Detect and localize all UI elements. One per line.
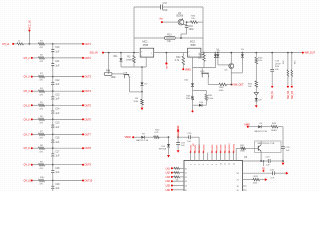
- svg-text:ROW8: ROW8: [221, 144, 223, 151]
- svg-text:1uF: 1uF: [55, 188, 60, 190]
- IC U6 top pin 9: [224, 153, 226, 161]
- svg-text:CH_10: CH_10: [24, 180, 32, 183]
- op-amp MC2 4558: [188, 48, 201, 57]
- IC U6 right pin row3 resistor R39: [243, 179, 254, 181]
- node row 8 cap junction: [52, 147, 54, 149]
- wire row 6 resistor to junction: [45, 118, 53, 120]
- svg-text:BA157L/T1B: BA157L/T1B: [255, 130, 268, 133]
- svg-text:C10: C10: [55, 47, 60, 49]
- svg-text:ROW3: ROW3: [199, 144, 201, 151]
- svg-text:ROW11: ROW11: [234, 143, 236, 151]
- svg-text:ROW1: ROW1: [191, 144, 193, 151]
- node D11 junction: [120, 52, 122, 54]
- svg-text:VREF: VREF: [178, 124, 180, 131]
- wire row1 inductor to junction: [24, 43, 39, 45]
- svg-text:INP10A: INP10A: [159, 148, 167, 151]
- wire D2 to R8: [141, 85, 143, 99]
- node row 10 cap junction: [52, 180, 54, 182]
- node signal drop junction: [108, 52, 110, 54]
- transistor box U9 MMBT5551L/T1B: [255, 141, 282, 152]
- capacitor C17 1uF: [52, 148, 54, 154]
- svg-text:1uF: 1uF: [55, 113, 60, 115]
- wire to R3 junction: [121, 52, 139, 54]
- diode D2: [141, 82, 144, 85]
- diode D6 BA157L: [258, 125, 261, 128]
- svg-text:1uF: 1uF: [270, 177, 274, 179]
- svg-text:OUT2: OUT2: [85, 57, 92, 60]
- wire Q5 collector to bus: [230, 53, 232, 64]
- svg-text:35: 35: [237, 190, 239, 191]
- wire row 5 port to resistor: [33, 104, 39, 106]
- svg-text:1uF: 1uF: [55, 51, 60, 53]
- svg-text:36: 36: [237, 186, 239, 188]
- wire row 3 port to resistor: [33, 76, 39, 78]
- IC U6 top pin 3: [198, 153, 200, 161]
- wire feedback right vertical: [202, 7, 204, 53]
- node supply junction VA: [177, 136, 179, 138]
- wire C16 down to R13 node: [186, 28, 188, 34]
- wire R13 row: [134, 37, 165, 39]
- wire MC1 bottom pin: [145, 57, 147, 67]
- wire branch right: [193, 89, 207, 91]
- wire U1B leg down: [129, 78, 131, 92]
- node R3 feedback junction: [133, 52, 135, 54]
- transistor U1D: [201, 72, 209, 74]
- capacitor C11 1uF: [52, 58, 54, 64]
- node row 5 right net: [82, 104, 84, 106]
- svg-text:1uF: 1uF: [55, 127, 60, 129]
- wire Q6 collector up: [260, 141, 262, 145]
- wire row 8 resistor to junction: [45, 147, 53, 149]
- node row 6 cap junction: [52, 119, 54, 121]
- svg-text:CH_5: CH_5: [24, 104, 31, 107]
- IC U6 top pin 11: [233, 153, 235, 161]
- transistor Q6 symbol: [257, 146, 259, 151]
- svg-text:OUT9: OUT9: [85, 164, 92, 167]
- net red arrow down R8: [141, 108, 144, 111]
- capacitor C10 1uF: [52, 44, 54, 50]
- node row 2 cap junction: [52, 57, 54, 59]
- svg-text:100k: 100k: [111, 77, 117, 79]
- wire row 10 resistor to junction: [45, 180, 53, 182]
- node row 7 cap junction: [52, 134, 54, 136]
- wire R41 to Q6 base: [245, 147, 258, 149]
- wire cap C13 to next row: [52, 99, 54, 106]
- svg-text:47nF: 47nF: [162, 9, 168, 12]
- svg-text:OUT5: OUT5: [85, 104, 92, 107]
- svg-text:1uF: 1uF: [286, 150, 290, 152]
- wire Q4 to R34: [187, 21, 191, 23]
- wire row 2 resistor to junction: [45, 57, 53, 59]
- node row 3 cap junction: [52, 76, 54, 78]
- transistor Q4 BC856: [178, 19, 184, 25]
- svg-text:C12: C12: [55, 80, 60, 82]
- resistor R2 470: [39, 57, 45, 60]
- capacitor C15 1uF: [52, 119, 54, 125]
- svg-text:C17: C17: [163, 2, 168, 5]
- svg-text:(47nF: (47nF: [275, 63, 281, 65]
- svg-text:VM: VM: [166, 65, 168, 68]
- net red arrow down right: [282, 163, 285, 166]
- node bus C18 junction: [271, 52, 273, 54]
- wire cap C19 to next row: [52, 188, 54, 191]
- wire D4 to Q5 base: [218, 64, 229, 66]
- net label C18 bottom red: [271, 86, 273, 88]
- op-amp MC1 4558: [140, 48, 154, 57]
- capacitor C18 47nF vertical: [271, 53, 273, 70]
- wire feedback top left segment: [134, 6, 161, 8]
- resistor R43 1MEG: [271, 125, 278, 128]
- node row 4 right net: [82, 90, 84, 92]
- IC U6 top pin 8: [220, 153, 222, 161]
- wire C26 down to node: [282, 149, 284, 162]
- wire row 1 junction to output dot: [53, 43, 83, 45]
- resistor R23 10k vertical: [255, 81, 258, 87]
- svg-text:CH_6: CH_6: [24, 118, 31, 121]
- capacitor C26 1uF in vertical: [281, 146, 285, 148]
- wire to R60: [208, 84, 219, 86]
- wire cap C16 to next row: [52, 142, 54, 148]
- inductor L1: [17, 43, 24, 45]
- resistor R15 vertical thin: [291, 53, 293, 70]
- svg-text:10: 10: [220, 163, 222, 165]
- wire cap C12 to next row: [52, 84, 54, 91]
- node Q5 emitter to port junction: [231, 84, 233, 86]
- wire row 10 port to resistor: [33, 180, 39, 182]
- node row 6 right net: [82, 118, 84, 120]
- wire supply stub up: [28, 31, 30, 44]
- svg-text:34: 34: [185, 186, 187, 188]
- capacitor C17 47nF: [160, 5, 162, 10]
- wire row2 to red arrow: [274, 172, 286, 174]
- svg-text:SW_OUT: SW_OUT: [233, 84, 244, 87]
- resistor R41 100k: [236, 147, 240, 149]
- svg-text:100k: 100k: [198, 57, 204, 59]
- svg-text:LN5: LN5: [166, 186, 171, 188]
- svg-text:U1B: U1B: [123, 72, 128, 74]
- capacitor C12 1uF: [52, 77, 54, 83]
- capacitor C14 1uF: [52, 105, 54, 111]
- svg-text:R44: R44: [176, 57, 181, 59]
- svg-text:CH_9: CH_9: [24, 164, 31, 167]
- resistor R7 470: [39, 133, 45, 136]
- wire C23 to corner node: [270, 160, 283, 162]
- net red arrow down zener: [167, 155, 170, 158]
- node row 1 cap junction: [52, 43, 54, 45]
- capacitor C16 1uF: [52, 134, 54, 140]
- svg-text:7: 7: [208, 164, 210, 165]
- svg-text:1uF: 1uF: [55, 156, 60, 158]
- svg-text:CH_4: CH_4: [24, 90, 31, 93]
- wire top right bus: [247, 160, 269, 162]
- svg-text:1uF: 1uF: [187, 141, 191, 143]
- svg-text:CH_2: CH_2: [24, 57, 31, 60]
- wire C24 to red arrow: [177, 145, 179, 150]
- capacitor C22 series in wire: [178, 136, 189, 138]
- net red arrow down D9: [255, 105, 258, 108]
- wire main bus right: [203, 52, 303, 54]
- wire R3 to rail: [133, 63, 135, 67]
- wire bottom joining: [193, 104, 200, 106]
- svg-text:1uF: 1uF: [55, 142, 60, 144]
- node row 9 right net: [82, 164, 84, 166]
- wire R13 to right: [175, 37, 203, 39]
- node row 5 cap junction: [52, 104, 54, 106]
- wire U1D right leg down: [207, 77, 209, 84]
- net label R15 bottom red: [291, 86, 293, 88]
- wire D11 to rail: [120, 61, 122, 67]
- node Q4 collector junction: [183, 24, 187, 26]
- node bus R15 junction: [291, 52, 293, 54]
- svg-text:1uF: 1uF: [55, 99, 60, 101]
- resistor R5 470: [39, 104, 45, 107]
- resistor R24 10k vertical: [255, 53, 257, 58]
- wire D6 to R43: [261, 126, 271, 128]
- IC U6 body: [184, 160, 243, 194]
- net label top pin 3 red: [198, 151, 200, 153]
- svg-text:4558: 4558: [190, 44, 196, 47]
- svg-text:LN6: LN6: [166, 190, 171, 191]
- resistor R6 470: [39, 118, 45, 121]
- resistor R4 470: [39, 90, 45, 93]
- resistor R51 vertical: [205, 90, 207, 94]
- diode D7 BA157L: [141, 136, 144, 139]
- node row 4 cap junction: [52, 90, 54, 92]
- node row 9 cap junction: [52, 164, 54, 166]
- wire row 6 junction to output dot: [53, 118, 83, 120]
- svg-text:11: 11: [225, 163, 227, 165]
- svg-text:1uF: 1uF: [55, 65, 60, 67]
- svg-text:4558: 4558: [143, 44, 149, 47]
- wire D12 to branch: [192, 86, 194, 96]
- wire supply stub up red: [177, 132, 179, 138]
- net label top pin 8 red: [220, 151, 222, 153]
- capacitor C24 below: [177, 137, 179, 142]
- svg-text:CH_7: CH_7: [24, 133, 31, 136]
- svg-text:LN2: LN2: [166, 173, 171, 175]
- wire cap C15 to next row: [52, 127, 54, 134]
- svg-text:WR_OUT: WR_OUT: [305, 52, 316, 55]
- resistor left pin 3: [174, 176, 180, 178]
- svg-text:VB: VB: [264, 167, 266, 171]
- svg-text:C16: C16: [55, 138, 60, 140]
- svg-text:1uF: 1uF: [266, 164, 270, 166]
- svg-text:VMID: VMID: [185, 69, 191, 71]
- svg-text:C15: C15: [55, 123, 60, 125]
- node row 8 right net: [82, 147, 84, 149]
- wire port to D6: [249, 126, 259, 128]
- svg-text:1MEG: 1MEG: [271, 130, 277, 132]
- wire R41 left corner down: [235, 148, 237, 160]
- net label top pin 1 red: [190, 151, 192, 153]
- svg-text:CH_8: CH_8: [24, 147, 31, 150]
- node row 7 right net: [82, 133, 84, 135]
- capacitor C13 1uF: [52, 91, 54, 97]
- svg-text:OUT4: OUT4: [85, 90, 92, 93]
- net label top pin 4 red: [203, 151, 205, 153]
- resistor R60 100k: [219, 83, 227, 86]
- IC U6 top pin 4: [202, 153, 204, 161]
- resistor R14 100k vertical: [203, 53, 205, 54]
- svg-text:OUT3: OUT3: [85, 76, 92, 79]
- wire row 3 junction to output dot: [53, 76, 83, 78]
- svg-text:SW_O2: SW_O2: [288, 90, 290, 99]
- wire R42 to zener junction: [159, 136, 168, 138]
- svg-text:MMBT5551L/T1B: MMBT5551L/T1B: [258, 143, 275, 145]
- svg-text:1uF: 1uF: [55, 172, 60, 174]
- node red endpoint: [192, 110, 194, 112]
- wire row 7 resistor to junction: [45, 133, 53, 135]
- svg-text:5: 5: [199, 164, 201, 165]
- capacitor C28 series row2: [272, 171, 274, 175]
- wire row 5 resistor to junction: [45, 104, 53, 106]
- svg-text:C14: C14: [55, 109, 60, 111]
- svg-text:ROW2: ROW2: [195, 144, 197, 151]
- svg-text:33: 33: [185, 181, 187, 183]
- svg-text:31: 31: [185, 173, 187, 175]
- svg-text:37: 37: [237, 180, 239, 182]
- resistor R44 4.7k: [182, 53, 184, 57]
- wire cap C17 to next row: [52, 156, 54, 165]
- svg-text:32: 32: [185, 177, 187, 179]
- node D2 chain junction: [141, 91, 143, 93]
- wire C22 to corner down: [191, 136, 200, 138]
- svg-text:ROW10: ROW10: [229, 143, 231, 152]
- wire row 9 port to resistor: [33, 164, 39, 166]
- svg-text:C18: C18: [55, 168, 60, 170]
- wire Q6 emitter down to bus: [260, 151, 262, 161]
- capacitor C19 1uF: [52, 181, 54, 187]
- svg-text:B1066: B1066: [177, 16, 184, 18]
- svg-text:ROW6: ROW6: [212, 144, 214, 151]
- svg-text:OUT1: OUT1: [85, 43, 92, 46]
- net label top pin 2 red: [194, 151, 196, 153]
- wire row 6 port to resistor: [33, 118, 39, 120]
- svg-text:CH_L1: CH_L1: [2, 43, 10, 46]
- svg-text:5: 5: [189, 51, 190, 53]
- wire cap C18 to next row: [52, 172, 54, 180]
- node row 2 right net: [82, 57, 84, 59]
- net label top pin 10 red: [228, 151, 230, 153]
- svg-text:OUT8: OUT8: [85, 147, 92, 150]
- wire input to D11 junction: [104, 52, 121, 54]
- wire bottom rail D11-R3-MC1: [121, 66, 146, 68]
- svg-text:ROW7: ROW7: [216, 144, 218, 151]
- svg-text:SW_O1: SW_O1: [272, 90, 274, 99]
- wire row1 port to inductor: [14, 43, 17, 45]
- svg-text:3: 3: [141, 51, 142, 53]
- node emitter junction: [260, 160, 262, 162]
- svg-text:CH_3: CH_3: [24, 76, 31, 79]
- node R13 transistor junction: [180, 37, 182, 39]
- diode D3: [214, 53, 216, 55]
- svg-text:OUT6: OUT6: [85, 118, 92, 121]
- svg-text:U1D: U1D: [200, 71, 205, 73]
- svg-text:VMID: VMID: [125, 136, 131, 139]
- IC U6 top pin 5: [207, 153, 209, 161]
- supply net label VCC: [28, 30, 30, 32]
- transistor Q5: [229, 64, 234, 69]
- svg-text:SW_O3: SW_O3: [292, 90, 294, 99]
- net label VMID red: [182, 65, 184, 69]
- svg-text:OUT10: OUT10: [85, 180, 93, 183]
- wire MC2 output to bus: [201, 52, 203, 54]
- svg-text:13: 13: [233, 163, 235, 165]
- wire port to D7: [134, 136, 141, 138]
- node mid junction with red stub: [166, 52, 168, 54]
- wire row 7 junction to output dot: [53, 133, 83, 135]
- resistor R42 4.7k: [154, 136, 160, 139]
- diode D9: [255, 95, 257, 98]
- net stub red dot mid: [165, 62, 167, 64]
- svg-text:HB: HB: [160, 19, 164, 21]
- svg-text:6: 6: [189, 55, 190, 57]
- resistor R9 470: [39, 163, 45, 166]
- port WR_OUT mid red: [231, 84, 233, 86]
- net label below red rot: [263, 170, 265, 172]
- wire D5 to Q5 emitter: [231, 72, 242, 74]
- IC U6 top pin 7: [215, 153, 217, 161]
- wire row 2 junction to output dot: [53, 57, 83, 59]
- svg-text:100n: 100n: [189, 29, 195, 31]
- wire rail right segment: [193, 67, 216, 69]
- node bus D5 junction: [242, 52, 244, 54]
- svg-text:2: 2: [141, 55, 142, 57]
- svg-text:1: 1: [151, 53, 152, 55]
- svg-text:LN3: LN3: [166, 177, 171, 179]
- IC U6 right pin row4: [243, 185, 247, 187]
- svg-text:30: 30: [185, 168, 187, 170]
- svg-text:12: 12: [229, 163, 231, 165]
- wire row 3 resistor to junction: [45, 76, 53, 78]
- wire U1B to D2 chain: [130, 91, 142, 93]
- transistor U1B: [124, 74, 130, 76]
- wire R46 to U1B: [112, 73, 124, 75]
- wire R43 to corner: [278, 126, 283, 128]
- svg-text:BA157L/T1B: BA157L/T1B: [136, 139, 148, 142]
- node row1 supply junction: [29, 43, 31, 45]
- resistor R13 11k (box style): [165, 37, 176, 40]
- wire R23 to ground: [255, 87, 257, 92]
- wire row 10 junction to output dot: [53, 180, 83, 182]
- resistor R3 470: [39, 75, 45, 78]
- port WR_OUT right end: [302, 52, 304, 54]
- wire cap C14 to next row: [52, 113, 54, 120]
- resistor R10 470: [39, 179, 45, 182]
- background dotted grid: [0, 0, 320, 191]
- wire Q4 base: [163, 21, 179, 23]
- net label R16 bottom red: [287, 86, 289, 88]
- wire stub down to red node: [192, 105, 194, 111]
- node zener junction: [168, 136, 170, 138]
- wire R60 to port: [227, 84, 232, 86]
- svg-text:10MEG: 10MEG: [126, 59, 134, 61]
- IC U6 right pin top wire: [243, 160, 247, 162]
- wire D10 to R51: [202, 104, 206, 106]
- IC U6 top pin 10: [228, 153, 230, 161]
- wire feedback top right segment: [163, 6, 203, 8]
- net label top pin 9 red: [224, 151, 226, 153]
- resistor R8 100k: [141, 99, 144, 105]
- resistor R63 on vertical: [191, 96, 194, 100]
- IC U6 top pin 6: [211, 153, 213, 161]
- wire Q4 emitter up: [182, 18, 184, 20]
- svg-text:R46: R46: [106, 71, 111, 73]
- wire row 2 port to resistor: [33, 57, 39, 59]
- resistor R3 10MEG: [133, 55, 136, 62]
- node row 3 right net: [82, 76, 84, 78]
- node bus D4 junction: [217, 52, 219, 54]
